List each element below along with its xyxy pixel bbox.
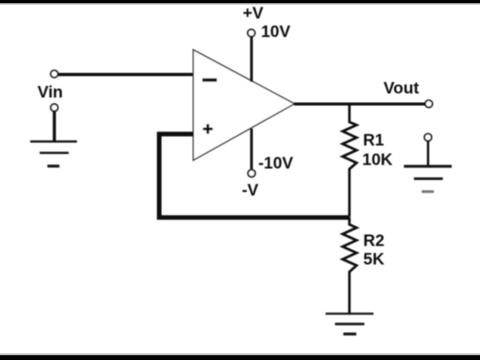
wire -V supply <box>250 129 253 170</box>
ground (output reference) <box>404 166 452 191</box>
terminal Vout <box>425 100 432 107</box>
wire output <box>294 103 425 106</box>
wire +V supply <box>250 36 253 82</box>
svg-text:Vout: Vout <box>384 80 420 98</box>
resistor R2 <box>343 218 357 314</box>
terminal Vin <box>51 70 58 77</box>
wire output reference to ground <box>427 141 429 166</box>
svg-text:Vin: Vin <box>38 84 63 102</box>
ground (output divider) <box>326 314 374 334</box>
terminal -V <box>248 170 255 177</box>
terminal +V <box>248 29 255 36</box>
wire feedback <box>159 134 349 217</box>
ground (input reference) <box>30 142 77 167</box>
svg-text:-V: -V <box>242 182 259 200</box>
wire Vin terminal to ground <box>53 111 56 141</box>
svg-text:10K: 10K <box>362 151 392 169</box>
svg-text:5K: 5K <box>363 251 384 269</box>
terminal Vin ground <box>51 104 58 111</box>
svg-text:-10V: -10V <box>258 155 293 173</box>
svg-text:R1: R1 <box>363 132 384 150</box>
op-amp U1 <box>193 50 294 161</box>
svg-text:10V: 10V <box>261 23 290 41</box>
terminal output reference <box>424 134 431 141</box>
svg-text:+V: +V <box>243 5 264 23</box>
wire input to inverting pin <box>58 73 194 76</box>
resistor R1 <box>343 104 357 217</box>
svg-text:R2: R2 <box>363 232 384 250</box>
